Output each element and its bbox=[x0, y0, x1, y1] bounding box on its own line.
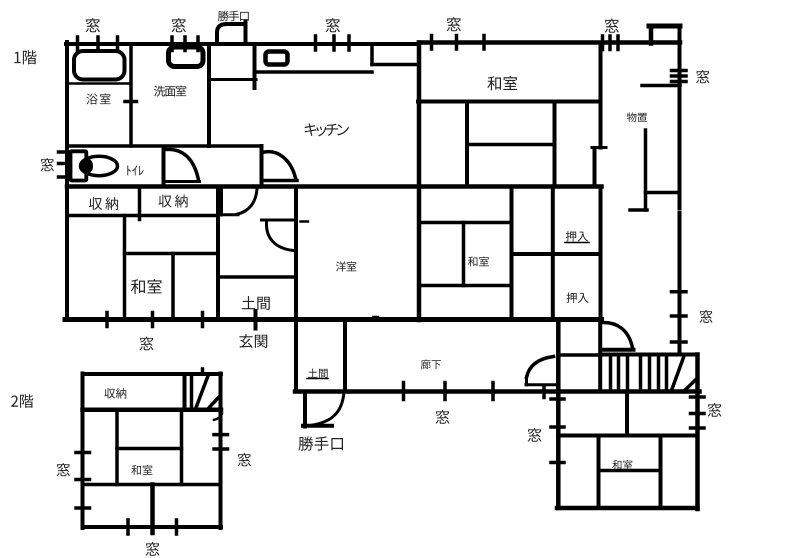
wall BR lower cell right bbox=[659, 436, 663, 509]
wall jog vertical bbox=[593, 148, 597, 187]
door toilet leaf bbox=[162, 147, 166, 185]
wall 2F right bbox=[219, 374, 223, 529]
stairs 1F winder diagonal 1 bbox=[672, 356, 685, 391]
window kitchen top tick 2 bbox=[332, 36, 336, 50]
label kitchen bbox=[305, 123, 349, 136]
label katteguchi top bbox=[218, 11, 249, 22]
label monooki bbox=[627, 112, 647, 122]
wall hall top (bath/washroom bottom) bbox=[67, 144, 262, 148]
door katteguchi bottom edge bbox=[303, 424, 332, 428]
wall 2F left bbox=[81, 374, 85, 529]
window right wall singles tick 2 bbox=[672, 314, 687, 318]
label window washitsu TR bbox=[447, 17, 461, 31]
monooki top line bbox=[642, 84, 680, 88]
wall 2F mid-right vertical bbox=[180, 410, 184, 485]
kitchen shelf line bbox=[209, 78, 256, 81]
wall 1F right upper bbox=[678, 26, 682, 209]
wall 2F bottom band divider bbox=[150, 485, 155, 534]
stairs 1F top edge bbox=[601, 353, 698, 357]
window washroom top tick 3 bbox=[196, 37, 200, 51]
door kitchen bottom edge bbox=[262, 179, 297, 183]
window bottom-left tick 1 bbox=[105, 313, 109, 327]
label window right mid bbox=[700, 310, 713, 323]
window BR left wall tick 3 bbox=[551, 461, 564, 465]
door yoshitsu swing arc bbox=[266, 223, 293, 251]
wall washitsu BL divider bbox=[171, 254, 175, 320]
door katteguchi top leaf bbox=[244, 22, 248, 45]
stair hall top line bbox=[558, 353, 601, 357]
wall major middle horizontal bbox=[67, 184, 602, 189]
wall shuunou divider bbox=[138, 187, 142, 220]
door katteguchi top swing arc bbox=[217, 24, 246, 44]
stairs 1F tread 3 bbox=[626, 356, 630, 390]
wall oshiire left vertical bbox=[551, 187, 555, 320]
wall 1F right lower bbox=[678, 213, 682, 354]
window 2F right wall tick 1 bbox=[214, 433, 228, 437]
doma small underline bbox=[307, 378, 328, 380]
label window storage bbox=[696, 70, 709, 83]
genkan tick bbox=[254, 311, 258, 329]
wall shuunou band bottom bbox=[68, 214, 218, 218]
door yoshitsu top edge bbox=[262, 219, 297, 222]
wall center cell divider vertical bbox=[462, 223, 466, 286]
wall BR block right bbox=[695, 355, 700, 510]
window top right triple tick 3 bbox=[616, 36, 620, 50]
toilet bowl-tank junction blob bbox=[82, 159, 93, 174]
window right wall triple tick 1 bbox=[672, 69, 687, 73]
label oshiire bottom bbox=[566, 292, 588, 303]
label window washroom bbox=[172, 18, 186, 32]
stairs 2F diagonal 2 bbox=[207, 398, 219, 410]
corridor small tick bbox=[542, 386, 546, 398]
window corridor tick 3 bbox=[491, 383, 495, 400]
kitchen counter left edge bbox=[253, 44, 257, 88]
label window BR right bbox=[708, 403, 722, 417]
wall washroom/kitchen divider bbox=[207, 44, 211, 146]
wall bath/washroom divider bbox=[129, 44, 133, 146]
wall 2F lower horizontal bbox=[83, 483, 221, 487]
wall doma box right bbox=[343, 320, 347, 392]
wall 1F left bbox=[65, 42, 69, 320]
window corridor tick 1 bbox=[402, 383, 406, 400]
door corridor leaf bbox=[526, 383, 558, 386]
label washitsu TR bbox=[487, 76, 517, 90]
wall TR cell right vertical bbox=[553, 102, 557, 187]
window BR right wall tick 2 bbox=[691, 412, 705, 416]
stairs 2F left edge bbox=[183, 374, 187, 410]
label genkan bbox=[239, 334, 267, 348]
label toilet bbox=[127, 165, 143, 175]
label window BR left bbox=[528, 428, 542, 442]
door stairs leaf bbox=[601, 348, 634, 352]
label rouka bbox=[421, 359, 441, 369]
window 2F bottom wall tick 1 bbox=[126, 520, 130, 534]
window 2F left wall tick 1 bbox=[76, 451, 90, 455]
kitchen sink bbox=[266, 52, 288, 65]
stairs 2F diagonal 1 bbox=[196, 375, 209, 410]
wall 2F top bbox=[83, 372, 222, 376]
window right wall singles tick 1 bbox=[672, 290, 687, 294]
door katteguchi bottom swing arc bbox=[310, 393, 344, 426]
wall 1F top bump top side bbox=[649, 24, 680, 29]
wall corridor bottom long bbox=[295, 389, 700, 394]
window right wall singles tick 3 bbox=[672, 340, 687, 344]
wall 1F top-right section bbox=[419, 40, 680, 45]
window washitsu TR top tick 3 bbox=[482, 36, 486, 50]
wall oshiire middle horizontal bbox=[512, 252, 601, 256]
jog tick at oshiire top bbox=[592, 146, 606, 149]
window right wall triple tick 2 bbox=[672, 74, 687, 78]
label window toilet bbox=[41, 158, 54, 171]
window bath top tick 3 bbox=[116, 37, 120, 51]
label washitsu BL bbox=[131, 279, 162, 294]
window washitsu TR top tick 1 bbox=[430, 36, 434, 50]
wall 2F washitsu top bbox=[117, 447, 182, 451]
wall 1F bottom main bbox=[65, 317, 602, 322]
wall 2F bottom bbox=[83, 525, 222, 529]
door toilet swing arc bbox=[166, 149, 199, 180]
door corridor stub bbox=[525, 377, 528, 385]
doma top line bbox=[218, 275, 296, 279]
window bath top tick 2 bbox=[96, 37, 100, 51]
stairs 1F tread 6 bbox=[657, 356, 661, 390]
window washitsu TR top tick 2 bbox=[455, 36, 459, 50]
label washitsu center small bbox=[468, 256, 489, 266]
window BR left wall tick 2 bbox=[551, 425, 564, 429]
wall washitsu TR bottom bbox=[418, 100, 600, 104]
label window bottom-left bbox=[140, 337, 154, 351]
washbasin bbox=[169, 47, 204, 67]
window 2F right wall tick 2 bbox=[214, 447, 228, 451]
door toilet bottom edge bbox=[165, 180, 200, 183]
label youshitsu bbox=[336, 261, 356, 271]
wall oshiire right vertical bbox=[599, 187, 603, 320]
wall stair hall left bbox=[598, 321, 602, 392]
label window top right bbox=[605, 19, 619, 33]
toilet tank bbox=[71, 151, 87, 180]
wall BR lower cell left bbox=[597, 436, 601, 509]
stairs 1F tread 4 bbox=[639, 356, 643, 390]
stairs 1F tread 5 bbox=[648, 356, 652, 390]
wall TR cell left vertical bbox=[465, 102, 469, 187]
wall corridor right bbox=[556, 321, 561, 508]
stairs 1F tread 1 bbox=[609, 356, 613, 390]
door katteguchi bottom leaf bbox=[303, 392, 307, 427]
wall 2F shuunou band bottom bbox=[83, 408, 222, 413]
label shuunou left bbox=[89, 197, 118, 210]
label yokushitsu bbox=[86, 93, 110, 104]
small tick right of yoshitsu wall bbox=[301, 220, 309, 223]
window washroom top tick 1 bbox=[170, 37, 174, 51]
label doma small bbox=[308, 368, 328, 378]
label washitsu 2F bbox=[131, 465, 152, 475]
small dot on genkan wall bbox=[374, 316, 379, 319]
wall 1F top bump left side bbox=[649, 26, 654, 44]
window kitchen top tick 1 bbox=[314, 36, 318, 50]
wall TR cell middle horizontal bbox=[467, 143, 555, 147]
kitchen counter bottom right part bbox=[372, 63, 419, 67]
stairs 1F tread 2 bbox=[617, 356, 621, 390]
label oshiire top bbox=[566, 231, 588, 242]
label window corridor bbox=[436, 410, 450, 424]
wall center block right of yoshitsu bbox=[510, 187, 514, 321]
door genkan-hall swing arc bbox=[237, 189, 257, 214]
wall center band horizontal bbox=[419, 221, 512, 225]
label window bath bbox=[86, 18, 100, 32]
bathtub bbox=[74, 51, 125, 80]
door 2F stair exit arc bbox=[214, 414, 222, 420]
stairs 2F tread vertical bbox=[190, 374, 194, 410]
label washitsu BR bbox=[612, 460, 632, 470]
wall yoshitsu left bbox=[294, 187, 298, 392]
window toilet left tick 1 bbox=[59, 150, 70, 154]
monooki partition vertical bbox=[644, 130, 648, 210]
kitchen counter bottom left part bbox=[256, 70, 372, 74]
label shuunou right bbox=[158, 195, 187, 208]
label window 2F right bbox=[238, 453, 251, 466]
wall lower-left cell vertical bbox=[123, 216, 127, 320]
window 2F bottom wall tick 2 bbox=[175, 520, 179, 534]
wall kitchen door jamb bbox=[260, 146, 264, 187]
window bottom-left tick 3 bbox=[201, 313, 205, 327]
wall BR block middle horizontal bbox=[558, 434, 697, 438]
label window 2F left bbox=[57, 463, 70, 476]
door genkan-hall jamb stub bbox=[220, 188, 223, 215]
window BR right wall tick 3 bbox=[691, 426, 705, 430]
window corridor tick 2 bbox=[443, 383, 447, 400]
label doma big bbox=[242, 296, 270, 310]
wall BR block bottom bbox=[557, 506, 698, 511]
label katteguchi bottom bbox=[298, 436, 342, 450]
door stairs swing arc bbox=[603, 322, 633, 348]
monooki lower line bbox=[646, 191, 680, 195]
label 1F floor bbox=[14, 50, 36, 64]
label senmenshitsu bbox=[154, 85, 186, 96]
window top right triple tick 1 bbox=[601, 36, 605, 50]
stairs 2F top tick bbox=[201, 369, 205, 374]
label shuunou 2F bbox=[104, 388, 126, 399]
wall BR washitsu split bbox=[599, 469, 661, 473]
toilet bowl bbox=[81, 156, 118, 175]
window top right triple tick 2 bbox=[608, 36, 612, 50]
wall 1F top-left section bbox=[66, 42, 419, 46]
window BR right wall tick 1 bbox=[691, 395, 705, 399]
window toilet left tick 3 bbox=[59, 175, 70, 179]
door kitchen swing arc bbox=[262, 152, 296, 178]
wall BR upper band divider bbox=[625, 392, 629, 436]
door genkan-hall leaf bbox=[221, 213, 239, 216]
label 2F floor bbox=[11, 394, 33, 408]
wall lower-left block right vertical bbox=[216, 187, 220, 320]
window kitchen top tick 3 bbox=[347, 36, 351, 50]
bath platform edge bbox=[67, 82, 131, 85]
label window 2F bottom bbox=[146, 542, 160, 556]
window 2F left wall tick 2 bbox=[76, 478, 90, 482]
door corridor swing arc bbox=[527, 357, 554, 378]
label window kitchen bbox=[326, 18, 340, 32]
stairs 1F winder diagonal 2 bbox=[684, 378, 698, 392]
window bottom-left tick 2 bbox=[151, 313, 155, 327]
window right wall triple tick 3 bbox=[672, 80, 687, 84]
window 2F left wall tick 3 bbox=[76, 506, 90, 510]
oshiire top underline bbox=[565, 242, 589, 244]
window washroom top tick 2 bbox=[183, 37, 187, 51]
bath door tick bbox=[125, 100, 137, 104]
kitchen counter step bbox=[370, 44, 374, 65]
wall lower-left cell horizontal bbox=[125, 252, 219, 256]
wall 2F mid-left vertical bbox=[115, 410, 119, 485]
stairs 1F tread 7 bbox=[665, 356, 669, 390]
monooki partition foot tick bbox=[630, 208, 647, 212]
window bath top tick 1 bbox=[76, 37, 80, 51]
window toilet left tick 2 bbox=[59, 162, 70, 166]
window BR left wall tick 1 bbox=[551, 397, 564, 401]
wall center band lower horizontal bbox=[419, 284, 512, 288]
wall washitsu TR right bbox=[599, 43, 603, 148]
wall center divider (kitchen/washitsu) bbox=[417, 43, 422, 321]
